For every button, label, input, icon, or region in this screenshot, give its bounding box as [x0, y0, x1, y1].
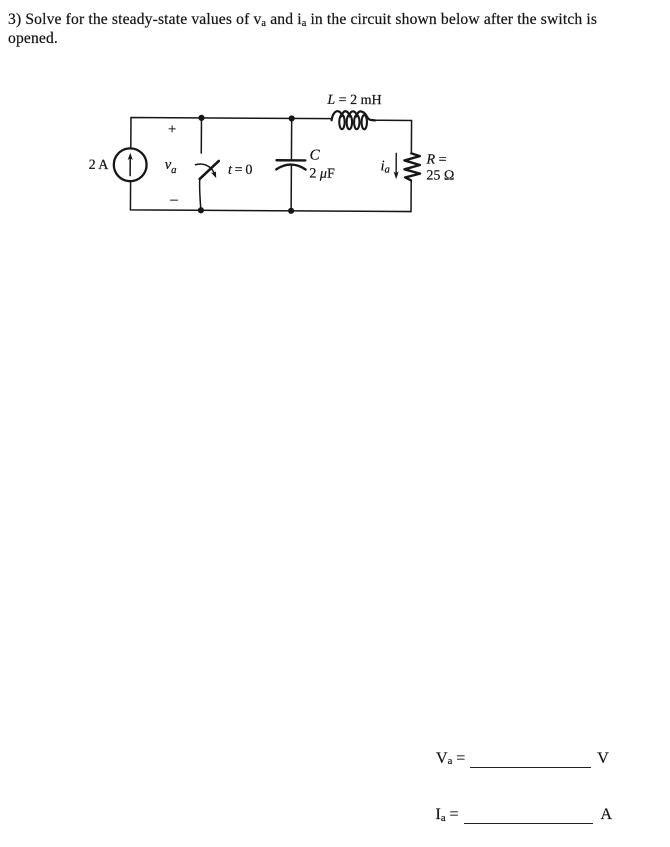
svg-text:t = 0: t = 0 — [228, 163, 252, 178]
switch SW1 blade — [200, 161, 219, 179]
wire: top rail right segment (inductor to resistor) — [375, 120, 412, 153]
svg-text:R =: R = — [425, 152, 446, 167]
wire: top rail left segment (source to inductor) — [131, 117, 332, 149]
inductor L1 loop 4 — [362, 115, 367, 129]
current ia arrow — [395, 153, 397, 173]
inductor L1 coil top humps — [332, 111, 376, 120]
resistor R1 zigzag — [404, 153, 420, 180]
node top-middle junction dot — [289, 115, 295, 121]
problem statement text — [8, 10, 597, 29]
node bottom-left junction dot — [198, 207, 204, 213]
node top-left junction dot — [198, 115, 204, 121]
svg-text:va: va — [165, 157, 177, 176]
inductor L1 loop 1 — [339, 115, 344, 129]
capacitor C1 bottom lead — [290, 165, 292, 211]
capacitor C1 top lead — [290, 118, 292, 159]
current source I1 circle — [114, 148, 147, 181]
switch SW1 bottom wire — [199, 179, 201, 210]
current source I1 arrow — [129, 156, 131, 175]
wire: bottom rail — [130, 179, 411, 212]
svg-text:C: C — [310, 148, 321, 164]
capacitor C1 top plate — [277, 159, 306, 162]
switch SW1 arc arrowhead — [211, 171, 216, 178]
svg-text:ia: ia — [380, 158, 390, 175]
inductor L1 loop 3 — [354, 115, 359, 129]
answer line Va — [436, 750, 609, 768]
svg-text:+: + — [168, 122, 176, 138]
svg-text:2 A: 2 A — [89, 158, 110, 173]
switch SW1 opening-motion arc — [195, 164, 214, 173]
switch SW1 top contact stub — [200, 118, 202, 153]
problem statement text line 2 — [8, 29, 58, 48]
capacitor C1 curved bottom plate — [276, 164, 305, 169]
svg-text:25 Ω: 25 Ω — [426, 168, 454, 183]
svg-text:2 μF: 2 μF — [309, 167, 335, 182]
svg-text:L = 2 mH: L = 2 mH — [326, 93, 381, 108]
answer line Ia — [436, 806, 613, 824]
node bottom-middle junction dot — [288, 208, 294, 214]
svg-text:–: – — [169, 192, 178, 208]
inductor L1 loop 2 — [347, 115, 352, 129]
